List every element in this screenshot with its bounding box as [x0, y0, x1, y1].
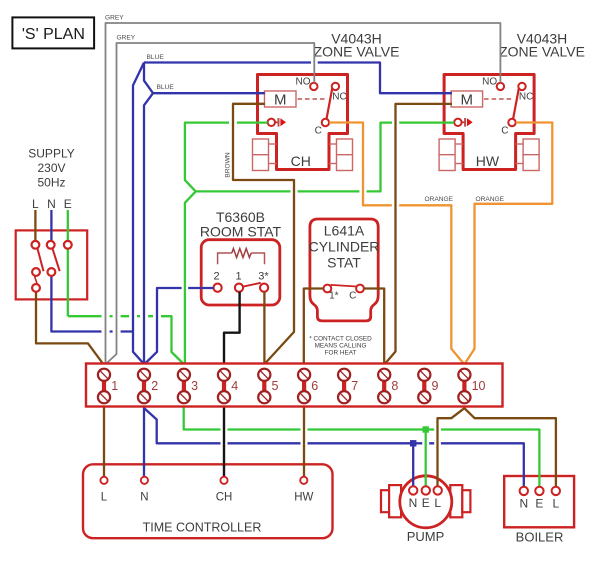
boiler box: [504, 476, 574, 544]
contact NC: [332, 83, 339, 90]
svg-text:M: M: [461, 92, 474, 109]
wire brown: HW valve motor to terminal 8: [385, 104, 452, 364]
wire green: branch to HW valve earth: [196, 123, 454, 192]
motor M box of HW valve: [451, 91, 483, 107]
svg-text:TIME CONTROLLER: TIME CONTROLLER: [143, 521, 262, 535]
svg-text:1*: 1*: [329, 291, 339, 302]
time controller terminal HW: [300, 477, 307, 484]
svg-text:3*: 3*: [258, 271, 269, 283]
switch arm NC-C: [513, 85, 519, 119]
contact NC: [518, 83, 525, 90]
supply terminal N top: [47, 241, 55, 249]
svg-text:2: 2: [213, 271, 219, 283]
svg-text:NO: NO: [296, 77, 311, 88]
cylinder stat L641A: [309, 219, 380, 321]
wire black: room stat 1 down to terminal 4: [224, 292, 240, 365]
svg-text:CYLINDER: CYLINDER: [309, 239, 380, 255]
supply isolator box: [16, 230, 88, 299]
svg-text:E: E: [422, 496, 430, 510]
wire green: drop to pump E: [425, 430, 427, 488]
supply terminal L mid: [32, 268, 40, 276]
supply switch blade L lower: [35, 276, 38, 283]
svg-text:3: 3: [191, 379, 198, 393]
svg-text:4: 4: [231, 379, 238, 393]
junction dot green: [423, 426, 429, 432]
svg-text:6: 6: [311, 379, 318, 393]
svg-text:BLUE: BLUE: [147, 54, 165, 61]
strip terminal 9: [418, 369, 438, 404]
svg-text:FOR HEAT: FOR HEAT: [325, 350, 357, 357]
room stat terminal 2: [214, 284, 222, 292]
time controller terminal N: [141, 477, 148, 484]
contact NO: [497, 83, 504, 90]
wire blue B1: terminal2 to HW valve M: [144, 63, 452, 94]
svg-text:8: 8: [391, 379, 398, 393]
pump terminal labels N E L: [409, 496, 442, 510]
dashed actuator link: [298, 98, 328, 100]
valve CH body outline: [258, 75, 348, 170]
svg-text:N: N: [47, 197, 56, 211]
boiler terminal N: [520, 487, 528, 495]
earth terminal of CH valve: [268, 119, 275, 126]
svg-text:NC: NC: [519, 92, 533, 103]
title box 'S' PLAN: [12, 17, 94, 48]
svg-text:ORANGE: ORANGE: [476, 196, 505, 203]
contact C: [508, 119, 515, 126]
wire brown: CH valve motor to terminal 5: [233, 104, 294, 364]
valve HW body outline: [444, 75, 534, 170]
zone valve V1 CH (V4043H): [253, 75, 353, 171]
cylinder stat terminal 1*: [324, 285, 332, 293]
svg-text:9: 9: [432, 379, 439, 393]
wire green: supply E down to terminal 3: [68, 210, 184, 364]
room stat T6360B: [200, 209, 282, 305]
svg-text:HW: HW: [476, 153, 500, 169]
wire brown: terminal10 to boiler L: [464, 408, 556, 487]
strip terminal 5: [258, 369, 278, 404]
valve HW right pipe flange: [523, 139, 539, 171]
wire blue: supply N down to terminal 2: [51, 276, 133, 332]
svg-text:ZONE VALVE: ZONE VALVE: [499, 44, 585, 60]
wire black: terminal4 down to time controller CH: [223, 405, 225, 477]
room stat switch arm 1-3: [243, 283, 261, 287]
wire brown: cylinder stat 1* to terminal 6: [304, 289, 324, 365]
wire blue: terminal2 down to time controller N: [143, 405, 145, 477]
wire brown: terminal6 down to time controller HW: [303, 405, 305, 477]
svg-text:L: L: [101, 492, 108, 504]
contact NO: [310, 83, 317, 90]
svg-text:10: 10: [472, 379, 486, 393]
supply terminal E: [64, 241, 72, 249]
svg-text:E: E: [535, 496, 543, 510]
svg-text:CH: CH: [216, 492, 233, 504]
wire grey G1: terminal1 to HW valve NO: [106, 23, 501, 365]
svg-text:NC: NC: [332, 92, 346, 103]
svg-text:GREY: GREY: [105, 15, 124, 22]
supply isolator terminals and blades: [32, 241, 72, 292]
wire blue: drop to pump N: [412, 443, 414, 487]
svg-text:2: 2: [151, 379, 158, 393]
svg-text:CH: CH: [291, 153, 311, 169]
boiler terminal labels N E L: [519, 496, 559, 510]
earth terminal of HW valve: [454, 119, 461, 126]
svg-text:C: C: [315, 126, 322, 137]
zone valve V2 HW (V4043H): [439, 75, 539, 171]
wire orange: CH valve C to terminal 10: [329, 123, 463, 364]
supply switch blade L: [38, 249, 44, 272]
svg-text:* CONTACT CLOSED: * CONTACT CLOSED: [309, 336, 372, 343]
strip terminal 4: [218, 369, 238, 404]
strip terminal 8: [378, 369, 398, 404]
svg-text:BROWN: BROWN: [225, 152, 232, 178]
junction dot blue: [410, 440, 416, 446]
time controller terminal L: [100, 477, 107, 484]
svg-text:ROOM STAT: ROOM STAT: [200, 224, 282, 240]
svg-text:BLUE: BLUE: [157, 84, 175, 91]
contact C: [322, 119, 329, 126]
wire green: main earth vertical to CH valve earth: [185, 123, 268, 365]
svg-text:'S' PLAN: 'S' PLAN: [22, 26, 85, 43]
time controller terminal labels: [101, 492, 314, 504]
svg-text:L: L: [32, 197, 39, 211]
wire brown: supply L down to terminal 1: [35, 210, 103, 364]
boiler terminal E: [535, 487, 543, 495]
supply terminal labels L N E: [32, 197, 72, 211]
terminal strip block: [86, 364, 503, 407]
switch arm NC-C: [327, 85, 333, 119]
svg-text:7: 7: [351, 379, 358, 393]
svg-text:N: N: [140, 492, 148, 504]
label SUPPLY 230V 50Hz: [28, 147, 74, 190]
svg-text:230V: 230V: [37, 161, 65, 175]
svg-text:STAT: STAT: [327, 255, 361, 271]
contact note text: [309, 336, 372, 357]
pump terminal L: [434, 486, 442, 494]
svg-text:N: N: [409, 496, 418, 510]
svg-text:1: 1: [111, 379, 118, 393]
svg-text:GREY: GREY: [117, 35, 136, 42]
svg-text:5: 5: [272, 379, 279, 393]
svg-text:HW: HW: [294, 492, 313, 504]
zone valve HW label V4043H ZONE VALVE: [499, 31, 585, 60]
pump terminal E: [422, 486, 430, 494]
strip terminal 7: [338, 369, 358, 404]
strip terminal 3: [178, 369, 198, 404]
svg-text:L641A: L641A: [324, 223, 365, 239]
svg-text:PUMP: PUMP: [407, 529, 445, 544]
strip terminal 2: [138, 369, 158, 404]
motor M box of CH valve: [265, 91, 297, 107]
resistor (anticipator) in room stat: [218, 253, 265, 264]
svg-text:ORANGE: ORANGE: [425, 196, 454, 203]
supply terminal N bottom: [48, 268, 56, 276]
wire blue: room stat terminal 2 feed: [145, 288, 214, 364]
svg-text:1: 1: [235, 271, 241, 283]
svg-text:L: L: [434, 496, 441, 510]
wire orange: HW valve C to terminal 10: [465, 123, 552, 364]
strip terminal 1: [98, 369, 118, 404]
wire brown: cylinder stat C to terminal 8: [364, 289, 384, 365]
dashed actuator link: [484, 98, 513, 100]
wire green: terminal3 down to pump E and boiler E: [184, 405, 540, 487]
svg-text:BOILER: BOILER: [516, 529, 564, 544]
svg-text:C: C: [349, 291, 356, 302]
strip terminal 10: [458, 369, 485, 404]
wire blue B2: terminal2 to CH valve M: [144, 63, 265, 365]
room stat terminal 3*: [260, 284, 268, 292]
boiler terminal L: [552, 487, 560, 495]
pump body: [381, 476, 470, 544]
wire brown: room stat 3* down to terminal 5: [263, 292, 265, 365]
svg-text:MEANS CALLING: MEANS CALLING: [315, 343, 367, 350]
supply terminal L top: [32, 241, 40, 249]
svg-text:L: L: [552, 496, 559, 510]
wire brown: terminal1 down to time controller L: [103, 405, 105, 477]
svg-text:SUPPLY: SUPPLY: [28, 147, 74, 161]
wire brown: terminal10 to pump L: [438, 405, 465, 487]
cylinder stat switch arm: [331, 285, 357, 287]
svg-text:50Hz: 50Hz: [37, 176, 65, 190]
svg-text:E: E: [64, 197, 72, 211]
wire blue: branch to pump N and boiler N: [144, 408, 524, 488]
room stat terminal 1: [235, 284, 243, 292]
svg-text:NO: NO: [482, 77, 497, 88]
time controller terminal CH: [220, 477, 227, 484]
cylinder stat terminal C: [356, 285, 364, 293]
pump terminal N: [409, 486, 417, 494]
svg-text:N: N: [519, 496, 528, 510]
time controller box: [83, 464, 333, 538]
supply terminal L bottom: [32, 284, 40, 292]
svg-text:M: M: [274, 92, 287, 109]
svg-text:C: C: [501, 126, 508, 137]
wire grey G2: terminal1 to CH valve NO: [106, 43, 314, 364]
supply switch blade N: [53, 249, 60, 272]
strip terminal 6: [298, 369, 318, 404]
valve CH left pipe flange: [253, 139, 269, 171]
zone valve CH label V4043H ZONE VALVE: [314, 31, 400, 60]
valve HW left pipe flange: [439, 139, 455, 171]
svg-text:ZONE VALVE: ZONE VALVE: [314, 44, 400, 60]
valve CH right pipe flange: [337, 139, 353, 171]
wire blue: supply N label stub: [50, 210, 52, 241]
